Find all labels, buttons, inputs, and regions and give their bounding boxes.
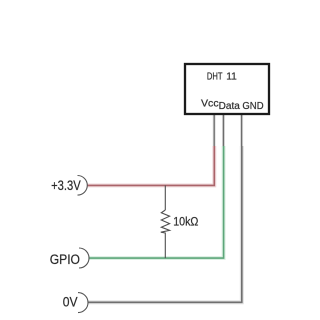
svg-text:Data: Data (219, 101, 241, 112)
svg-text:GPIO: GPIO (50, 252, 80, 267)
svg-text:GND: GND (242, 101, 263, 112)
svg-text:Vcc: Vcc (201, 99, 219, 110)
svg-text:+3.3V: +3.3V (51, 178, 81, 193)
svg-text:11: 11 (226, 72, 237, 83)
svg-text:0V: 0V (63, 295, 78, 310)
svg-text:DHT: DHT (207, 72, 223, 83)
svg-text:10kΩ: 10kΩ (173, 214, 198, 228)
